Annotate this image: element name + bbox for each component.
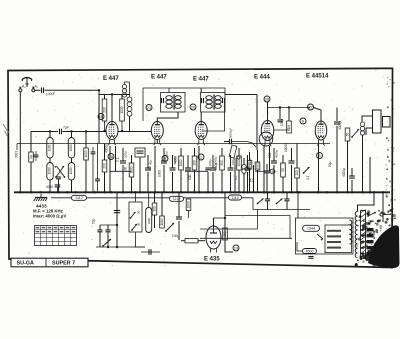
bus junction l [139, 191, 141, 193]
wire x235 pot to bus [234, 165, 236, 192]
heater jog a [110, 170, 132, 172]
x100 drop [99, 225, 101, 230]
IFT2 secondary winding [215, 96, 221, 109]
wire x370 vertical [369, 157, 371, 192]
wire picket 14 bot [273, 165, 275, 192]
wire picket 14 top [273, 148, 275, 161]
svg-text:1000: 1000 [47, 167, 51, 174]
resistor 1000 x257 [255, 162, 260, 170]
svg-text:300: 300 [152, 206, 156, 212]
IFT1 secondary winding [175, 96, 181, 109]
tube V2 E447 [151, 122, 163, 146]
coil bracket 1100 [47, 138, 53, 159]
svg-text:50μ: 50μ [92, 218, 96, 224]
capacitor picket 164 [161, 161, 167, 163]
bus junction d [48, 191, 50, 193]
grid return rail y143 [17, 143, 330, 145]
svg-text:6000μF: 6000μF [229, 128, 233, 138]
wire picket 1 bot [131, 177, 133, 192]
wire speaker top lead [362, 116, 373, 122]
wire IFT1 sec down [157, 112, 178, 122]
wire picket 7 top [187, 155, 189, 168]
heater rail drop [252, 198, 254, 210]
wire x257 down2 [257, 170, 259, 192]
wire e435 top [213, 218, 215, 226]
rail y215 [225, 215, 290, 217]
wire tuner bot cap [57, 187, 59, 192]
tube E435 pin right [216, 248, 218, 253]
svg-text:50μ: 50μ [328, 161, 332, 167]
wire osc res top [104, 95, 106, 100]
capacitor x58 [56, 177, 61, 179]
IFT1 core line b [174, 95, 176, 110]
svg-text:1000: 1000 [255, 162, 259, 169]
chassis ground [34, 194, 48, 201]
power transformer winding [355, 212, 357, 217]
resistor 1003 [84, 148, 89, 160]
wire picket 12 bot [238, 170, 240, 192]
wave switch right band [303, 167, 310, 174]
capacitor picket 230.5 [228, 168, 234, 170]
resistor picket 239 [237, 156, 242, 170]
wire picket 4 bot [163, 165, 165, 192]
junction x225 [224, 217, 226, 219]
switch v5 area [351, 129, 359, 138]
cap row a lead2 [267, 201, 269, 210]
wire picket 11 top [230, 155, 232, 168]
wire y252 link [141, 251, 160, 253]
svg-text:40μ: 40μ [148, 160, 152, 165]
svg-text:4000μ: 4000μ [342, 168, 346, 177]
lower rail left [100, 224, 117, 226]
lower junction b [116, 246, 118, 248]
capacitor picket 291.5 [289, 161, 295, 163]
svg-text:50: 50 [137, 210, 141, 214]
wire 4500 lead [297, 242, 303, 251]
bus junction x244 [243, 191, 245, 193]
capacitor row b [284, 199, 289, 201]
wire x97 up [97, 144, 99, 180]
wire grid rail mid [63, 131, 163, 133]
wire bracket a top [49, 132, 51, 138]
wire bracket c bot [49, 180, 51, 192]
wire osc res1 stub [104, 121, 106, 131]
wire v2 grid from rail [156, 140, 158, 144]
wire tuner left drop [30, 132, 32, 153]
heater jog b [185, 170, 208, 172]
bus junction a [19, 191, 21, 193]
capacitor v4 coupling [277, 120, 282, 122]
resistor x249 [247, 161, 252, 170]
wire mains to border [383, 214, 391, 216]
svg-text:SUPER 7: SUPER 7 [52, 261, 75, 267]
wire x86 top [85, 132, 87, 149]
wire x93 up [92, 147, 94, 152]
tube V4 E444 [261, 121, 274, 147]
antenna terminal A1 [19, 89, 22, 92]
wire picket 6 bot [180, 170, 182, 192]
svg-text:300: 300 [220, 160, 224, 166]
resistor 300 output [152, 203, 157, 215]
wire HT rail to v4 [225, 94, 257, 96]
svg-text:E 444: E 444 [254, 75, 270, 81]
wire bracket b top [71, 132, 73, 138]
svg-text:20: 20 [191, 104, 196, 109]
wire picket 13 bot [247, 172, 249, 192]
bus junction aa [290, 191, 292, 193]
wire picket 12 top [238, 148, 240, 156]
wire picket 3 bot [147, 172, 149, 192]
bus junction ah [373, 191, 375, 193]
svg-text:4000μ: 4000μ [338, 121, 342, 130]
wire v3 grid [200, 112, 202, 122]
resistor left string [29, 152, 34, 162]
bus junction r [198, 191, 200, 193]
wire bracket d bot [71, 180, 73, 192]
lower junction mid [116, 224, 118, 226]
bus junction x297 [296, 191, 298, 193]
resistor picket 222 [220, 156, 225, 170]
svg-text:250: 250 [223, 231, 227, 237]
svg-text:10: 10 [99, 114, 104, 119]
capacitor lower b [105, 230, 110, 232]
bus junction b [30, 191, 32, 193]
bus junction i [110, 191, 112, 193]
wire x249 down [249, 169, 251, 192]
rail y238 [200, 237, 292, 239]
svg-text:19: 19 [234, 245, 239, 250]
wire bracket b link [71, 158, 73, 163]
wire picket 5 top [172, 155, 174, 168]
wire x289 down [288, 108, 290, 122]
svg-text:1M: 1M [287, 124, 291, 129]
wire choke down [243, 173, 245, 192]
main ground bus [14, 191, 390, 193]
bus junction q [193, 191, 195, 193]
svg-text:1544: 1544 [307, 227, 315, 231]
wire bracket top [148, 192, 150, 207]
wire osc link2 [122, 94, 130, 96]
resistor picket 131.5 [129, 163, 134, 177]
resistor 500 osc [102, 99, 107, 121]
wire v2 pins down [154, 146, 156, 192]
resistor hanging 1000 [186, 199, 191, 211]
svg-text:E 435: E 435 [204, 257, 220, 263]
numbered terminal 19 [233, 245, 239, 251]
wire x337 down [336, 126, 338, 192]
svg-text:1000: 1000 [186, 201, 190, 208]
wire v4 aux line [267, 107, 310, 109]
junction osc res2 rail [121, 130, 123, 132]
svg-text:1112: 1112 [231, 196, 238, 200]
gang capacitor arrow b [54, 166, 65, 178]
wire picket 1 top [131, 155, 133, 163]
svg-text:100μ: 100μ [208, 159, 212, 166]
svg-text:0.1: 0.1 [116, 157, 120, 162]
bus junction x58 [57, 191, 59, 193]
svg-text:1112: 1112 [75, 196, 82, 200]
svg-text:100: 100 [124, 166, 128, 172]
numbered terminal 1 [198, 154, 204, 160]
x117 drop from bus [116, 192, 118, 247]
wire x347 down [347, 141, 349, 192]
bus junction k [130, 191, 132, 193]
wire v4 grid top [267, 102, 269, 121]
IFT2 core line a [212, 95, 214, 110]
numbered terminal 21 [146, 105, 152, 111]
wire antenna to coupling cap [35, 89, 41, 91]
capacitor IFT2 left [202, 98, 204, 103]
svg-text:1μ: 1μ [29, 155, 33, 159]
svg-text:50: 50 [148, 166, 152, 170]
bus junction x370 [369, 191, 371, 193]
wire x253 drop2 [253, 165, 255, 192]
junction rail x71 [70, 130, 72, 132]
numbered terminal 27 [308, 104, 314, 110]
wire x257 up2 [257, 150, 259, 162]
wire x93 bot [92, 154, 94, 192]
wire picket 0 top [122, 148, 124, 161]
capacitor 6000pF detector [230, 139, 232, 145]
mains switch terminal [380, 213, 383, 216]
boxed capacitor 140 [135, 148, 145, 157]
bus junction af [346, 191, 348, 193]
wire bus to power box [297, 192, 299, 218]
bus junction ab [299, 191, 301, 193]
capacitor picket 188 [185, 168, 191, 170]
wire antenna down lead [19, 92, 21, 193]
wire picket 6 top [180, 148, 182, 156]
oscillator coil upper loops [122, 85, 126, 98]
pill label 1112 right [229, 195, 242, 200]
bus junction v [238, 191, 240, 193]
numbered terminal 10 [98, 114, 104, 120]
wire capbox 2 bot [139, 157, 141, 192]
svg-text:100μ: 100μ [172, 234, 179, 238]
wire x104 up [104, 144, 106, 161]
x100 down2 [99, 232, 101, 247]
wire picket 15 bot [282, 177, 284, 192]
tube V5 E44514 [315, 121, 327, 146]
switch in box a [130, 212, 136, 219]
wire v4 pins down [263, 146, 265, 192]
wire x267 down [266, 173, 268, 192]
wire x86 bot [85, 160, 87, 192]
wire x352 lead [351, 168, 353, 176]
capacitor left string [34, 155, 39, 157]
gang capacitor arrow a [55, 166, 64, 178]
wire x337 cap string [336, 108, 338, 122]
resistor 1000 output [160, 216, 165, 228]
wire res-h leads [181, 240, 185, 242]
wire v5 pins down [318, 141, 320, 192]
wire osc top link [105, 94, 123, 96]
tone switch box [129, 202, 142, 232]
x154 top [154, 192, 156, 203]
wire v3 pins down [198, 146, 200, 192]
resistor v5 bias [345, 128, 350, 141]
tube V1 E447 [106, 122, 118, 146]
svg-text:1000: 1000 [160, 218, 164, 225]
tube E435 pin left [210, 248, 212, 253]
tube V3 E447 [195, 122, 207, 146]
paper scan noise [13, 70, 390, 268]
wire IFT1 top feed [143, 88, 169, 121]
transformer taps [361, 228, 374, 231]
bus junction m [154, 191, 156, 193]
ladder bars in power box [327, 230, 341, 232]
IF transformer T2 box [201, 93, 226, 113]
bus junction s [212, 191, 214, 193]
bus junction t [221, 191, 223, 193]
bus junction n [163, 191, 165, 193]
wire ot down [362, 135, 364, 192]
capacitor series tuner [60, 129, 62, 135]
svg-text:SU-GA: SU-GA [17, 261, 34, 267]
x154 bot [154, 215, 156, 228]
svg-text:1000: 1000 [69, 167, 73, 174]
bus junction ac [317, 191, 319, 193]
wire left cap stub2 [35, 157, 37, 161]
bus junction f [74, 191, 76, 193]
svg-text:4000: 4000 [174, 156, 178, 163]
svg-text:50: 50 [281, 168, 285, 172]
svg-text:50: 50 [345, 133, 349, 137]
capacitor picket 274 [271, 161, 277, 163]
wire x208 down [207, 172, 209, 192]
terminal tick A2 [32, 86, 34, 88]
capacitor output coupling [176, 217, 182, 219]
wire picket 4 top [163, 148, 165, 161]
svg-text:1000: 1000 [120, 106, 124, 113]
wire x257 down [256, 95, 258, 151]
bus junction c [39, 191, 41, 193]
IF transformer T1 box [161, 93, 186, 113]
svg-text:E 447: E 447 [193, 77, 209, 83]
label 4500 [303, 249, 317, 254]
wire coupling cap to grid line [45, 89, 100, 91]
resistor v4 leak [287, 121, 292, 133]
svg-text:21: 21 [147, 105, 152, 110]
junction rail x50 [49, 130, 51, 132]
capacitor under 4500 [308, 257, 313, 259]
resistor picket 181 [179, 156, 184, 170]
switch row b [276, 199, 283, 205]
wire picket 8 bot [194, 170, 196, 192]
svg-text:16: 16 [109, 154, 114, 159]
wire picket 16 top [291, 148, 293, 161]
capacitor picket 172.5 [170, 168, 176, 170]
numbered terminal 26 [264, 96, 270, 102]
wire picket 11 bot [230, 172, 232, 192]
cap row b lead [286, 192, 288, 199]
coil bracket 1000 c [47, 163, 53, 181]
bus junction x104 [103, 191, 105, 193]
x179 top [178, 192, 180, 217]
bus junction w [246, 191, 248, 193]
svg-text:4000μ: 4000μ [274, 149, 278, 158]
svg-text:100: 100 [192, 160, 196, 166]
resistor 1000 osc [120, 99, 125, 121]
capacitor tuner bottom [55, 185, 61, 187]
capacitor reservoir [114, 211, 120, 213]
svg-text:4500: 4500 [306, 249, 314, 253]
svg-text:25: 25 [250, 178, 254, 182]
lower rail 2 [96, 246, 145, 248]
wire HT rail top [99, 94, 105, 96]
power unit outline [296, 218, 354, 254]
capacitor IFT2 right [223, 98, 225, 103]
wire v1 pin down [115, 146, 117, 171]
numbered terminal 5 [162, 156, 168, 162]
tube E435 electrodes [210, 226, 217, 244]
inner box power [325, 225, 352, 253]
coil bracket 1000 b [68, 138, 74, 159]
wire x58 down [58, 179, 60, 192]
wire x104 down [104, 172, 106, 192]
junction antenna line x99 [98, 89, 100, 91]
svg-text:100: 100 [295, 170, 299, 176]
bus junction ai [382, 191, 384, 193]
svg-text:26: 26 [265, 96, 270, 101]
pill label 1112 left [72, 195, 87, 200]
wire IFT2 right down [202, 103, 225, 131]
wire v4 pin2 [269, 146, 271, 171]
capacitor x93 [91, 152, 96, 154]
numbered terminal 4 [270, 169, 275, 174]
svg-text:1000: 1000 [147, 217, 151, 224]
bus junction ae [336, 191, 338, 193]
wire antenna line down x99 [98, 90, 100, 143]
x257 rail drop [257, 210, 259, 230]
switch lower left [102, 239, 111, 247]
capacitor x352 [349, 176, 355, 178]
switch output stage [165, 223, 174, 232]
capacitor row a [265, 199, 270, 201]
wire e435 plate line [214, 217, 226, 219]
capacitor picket 213 [210, 168, 216, 170]
svg-text:40000: 40000 [105, 144, 109, 153]
x108 down2 [107, 232, 109, 247]
resistor picket 283 [281, 163, 286, 177]
bus junction z [282, 191, 284, 193]
antenna symbol [22, 77, 32, 87]
resistor bottom 250 [223, 228, 228, 240]
wire transformer top to bus [358, 192, 375, 211]
svg-text:Imax: 4000 Ω.μV: Imax: 4000 Ω.μV [33, 214, 66, 219]
wire bracket a link [49, 158, 51, 163]
svg-text:200: 200 [102, 163, 106, 169]
resistor picket 194.5 [192, 156, 197, 170]
IFT2 core line b [214, 95, 216, 110]
wire res-h to tube [198, 240, 205, 242]
x162 top [161, 192, 163, 216]
numbered terminal 20 [190, 104, 196, 110]
wire x249 up [249, 152, 251, 161]
capacitor inside box 140 [137, 151, 144, 153]
coil bracket 1000 d [68, 163, 74, 181]
resistor right band [295, 168, 300, 178]
svg-text:3003: 3003 [15, 151, 19, 158]
bus junction x135 [134, 191, 136, 193]
x108 drop [107, 225, 109, 230]
title block box [11, 258, 88, 267]
bracket resistor 1000 [146, 208, 152, 233]
valve data table [35, 226, 77, 246]
resistor horizontal output [185, 239, 198, 243]
svg-text:1100: 1100 [47, 144, 51, 151]
x225 drop [225, 192, 233, 252]
